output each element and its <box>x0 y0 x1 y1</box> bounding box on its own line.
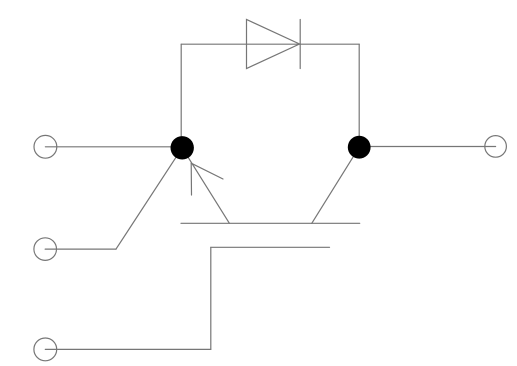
transistor Q1 emitter diagonal <box>182 148 229 224</box>
diode D1 triangle (anode) <box>247 20 300 69</box>
node A (left junction dot) <box>171 136 194 159</box>
wire gate bottom horizontal <box>45 348 211 350</box>
wire top rail <box>181 43 359 45</box>
terminal circle left (collector lead) <box>34 135 57 158</box>
node B (right junction dot) <box>348 136 371 159</box>
wire from left terminal to node A <box>45 146 182 148</box>
wire from node B to right terminal <box>359 146 495 148</box>
wire right vertical <box>358 44 360 147</box>
transistor Q1 body bar <box>181 222 360 224</box>
terminal circle middle left <box>34 238 57 261</box>
wire left vertical <box>180 44 182 148</box>
wire gate vertical <box>210 247 212 349</box>
emitter arrowhead barb 1 <box>191 163 223 179</box>
wire middle-left horizontal <box>45 248 116 250</box>
emitter arrowhead barb 2 <box>190 163 192 195</box>
transistor Q1 collector diagonal <box>312 147 360 223</box>
terminal circle right (emitter lead) <box>485 136 507 158</box>
diode D1 cathode bar <box>299 20 301 69</box>
terminal circle bottom left (gate lead) <box>34 338 57 361</box>
transistor Q1 gate line <box>211 246 330 248</box>
wire middle diagonal to node A <box>116 148 182 249</box>
